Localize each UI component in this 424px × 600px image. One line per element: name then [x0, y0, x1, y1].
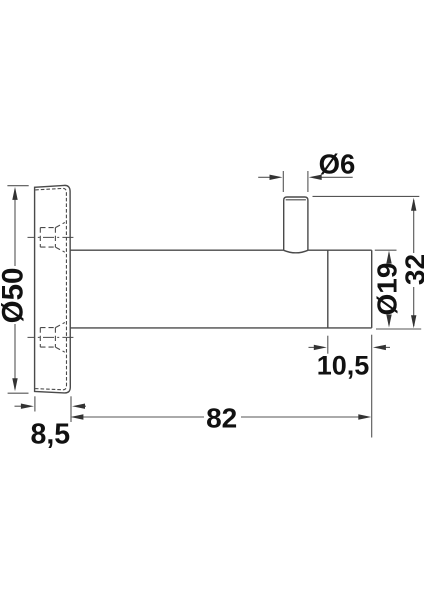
- dim O6 line left: [258, 176, 270, 178]
- peg base fillet arc: [284, 250, 308, 253]
- dim 8,5 line right: [84, 405, 86, 407]
- dim O19 line: [388, 253, 390, 325]
- svg-text:8,5: 8,5: [30, 419, 70, 451]
- dim O50 extension top: [7, 185, 28, 187]
- svg-text:Ø19: Ø19: [371, 263, 402, 316]
- upper screw hole centerline: [28, 236, 77, 238]
- arrow O6 left: [270, 175, 283, 180]
- arrow O50 top: [12, 187, 17, 200]
- svg-text:82: 82: [206, 403, 237, 434]
- arrow 82 right: [358, 414, 371, 419]
- dim 8,5 line left: [15, 405, 23, 407]
- hook arm right end face: [371, 250, 373, 328]
- dim O6 extension left: [282, 171, 284, 192]
- dim O50 extension bottom: [8, 392, 29, 394]
- dim 32 extension top: [313, 195, 420, 197]
- dim O50 line: [14, 189, 16, 389]
- dim 10,5 line left: [309, 346, 316, 348]
- lower screw hole centerline: [28, 336, 77, 338]
- dim 10,5 line right: [385, 346, 390, 348]
- arrow 8,5 left: [21, 404, 34, 409]
- dim 32 line: [413, 200, 415, 326]
- arrow 82 left: [70, 414, 83, 419]
- wall plate hidden back-face dashed line: [35, 188, 66, 389]
- arrow O19 bottom: [386, 315, 391, 328]
- peg top rim inner edge: [286, 199, 306, 201]
- hook arm cylinder top line: [70, 249, 372, 251]
- dim 10,5 extension left: [327, 336, 329, 354]
- arrow O19 top: [386, 251, 391, 264]
- dim O6 line right: [321, 176, 353, 178]
- arrow 8,5 right: [72, 404, 85, 409]
- hook arm end-cap joint line: [327, 250, 329, 328]
- hook arm cylinder bottom line: [70, 327, 372, 329]
- svg-text:10,5: 10,5: [317, 351, 370, 381]
- dim O6 extension right: [307, 171, 309, 192]
- dim O19 / 32 extension bottom: [376, 328, 421, 330]
- arrow O6 right: [309, 175, 322, 180]
- dim O19 extension top: [375, 249, 397, 251]
- dim 8,5 / 82 extension: [70, 396, 72, 422]
- lower screw hole dashed bore: [40, 323, 65, 353]
- dim 10,5 / 82 extension right: [371, 335, 373, 438]
- arrow 32 top: [411, 198, 416, 211]
- svg-text:Ø50: Ø50: [0, 268, 29, 324]
- upper screw hole dashed bore: [40, 223, 65, 253]
- peg outline: [284, 197, 308, 250]
- arrow 32 bottom: [411, 315, 416, 328]
- dim 82 line: [83, 416, 359, 418]
- wall plate outline: [35, 185, 71, 393]
- arrow 10,5 left: [314, 345, 327, 350]
- svg-text:32: 32: [399, 254, 424, 285]
- arrow 10,5 right: [373, 345, 386, 350]
- arrow O50 bottom: [12, 378, 17, 391]
- svg-text:Ø6: Ø6: [319, 149, 356, 180]
- dim 8,5 extension left: [34, 396, 36, 411]
